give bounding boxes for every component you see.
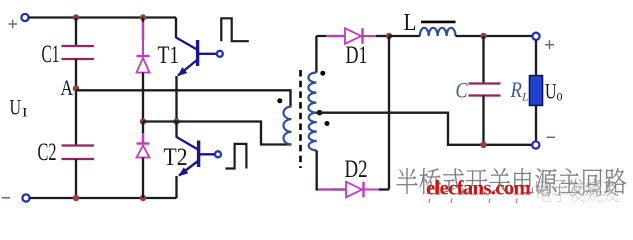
label - input bottom (2, 197, 10, 199)
node junction C bottom (480, 142, 487, 149)
capacitor C output (469, 84, 501, 96)
svg-text:L: L (404, 10, 417, 36)
diode D1 (326, 28, 378, 44)
inductor L core bar (421, 21, 456, 24)
svg-text:C: C (456, 78, 468, 103)
capacitor C2 (62, 146, 95, 160)
inductor L (420, 28, 456, 36)
wire RL top lead (535, 40, 537, 76)
node junction rectifier out (386, 33, 393, 40)
wire T2 collector lead (175, 122, 177, 138)
waveform pulse T2 (226, 144, 247, 169)
node junction top-left (73, 14, 80, 21)
svg-text:0: 0 (557, 90, 563, 104)
wire mid rail to primary bottom (143, 122, 292, 145)
wire secondary top lead (315, 36, 317, 73)
node center tap (317, 110, 323, 116)
wire diode branch lower (142, 122, 144, 144)
transformer primary winding (284, 107, 292, 145)
diode D2 (318, 182, 381, 198)
wire D2 cathode (379, 188, 389, 190)
watermark text 电子发烧友 (536, 178, 618, 195)
svg-text:I: I (22, 105, 28, 120)
wire D1 anode (316, 35, 345, 37)
terminal T1 base (217, 51, 223, 57)
label U0 (545, 79, 563, 104)
transformer secondary upper winding (308, 73, 316, 113)
wire rectifier vertical (388, 36, 390, 190)
diode DW1 freewheel (137, 22, 150, 103)
watermark text 电子发烧友 ghost (537, 186, 619, 203)
wire secondary bottom lead (317, 151, 332, 190)
node junction bottom-left (73, 195, 80, 202)
wire T1 collector lead (175, 18, 177, 39)
transistor T2 (176, 137, 214, 179)
wire center tap return (316, 113, 533, 145)
svg-text:T2: T2 (164, 144, 188, 171)
diode DW2 freewheel (137, 133, 150, 192)
svg-text:U: U (10, 95, 22, 120)
svg-text:T1: T1 (158, 42, 180, 69)
terminal - input bottom (22, 194, 29, 201)
terminal T2 base (215, 151, 221, 157)
svg-text:A: A (61, 75, 74, 100)
transformer secondary lower winding (309, 113, 317, 151)
label + input top (9, 20, 18, 29)
wire node A to primary top (76, 90, 291, 107)
node junction top-diode (140, 14, 147, 21)
svg-text:R: R (510, 77, 523, 102)
transformer core (299, 70, 302, 168)
label - output (547, 136, 556, 138)
wire C top lead (482, 36, 484, 84)
node junction mid-diode (140, 118, 147, 125)
wire rectifier to L (389, 35, 420, 37)
capacitor C1 (62, 46, 95, 59)
waveform pulse T1 (221, 18, 249, 41)
polarity dot secondary lower (325, 121, 330, 126)
wire C2 bottom lead (75, 159, 77, 198)
wire T2 emitter lead (175, 176, 177, 198)
wire D1 cathode (376, 35, 389, 37)
label UI (10, 95, 28, 120)
polarity dot primary (277, 98, 282, 103)
svg-text:D2: D2 (345, 156, 368, 183)
node junction bottom-diode (140, 195, 147, 202)
svg-text:C1: C1 (42, 41, 60, 68)
wire bottom rail (30, 197, 177, 199)
polarity dot secondary upper (320, 71, 325, 76)
svg-text:U: U (545, 79, 557, 104)
wire RL bottom lead (535, 105, 537, 141)
wire D2 anode (332, 188, 346, 190)
wire T1 emitter lead (175, 76, 177, 122)
svg-text:D1: D1 (346, 42, 368, 69)
wire diode branch mid (142, 73, 144, 122)
watermark red tick marks (429, 199, 517, 204)
resistor RL (530, 76, 543, 106)
node A (73, 85, 80, 92)
wire C1 bottom lead (75, 59, 77, 146)
svg-text:elecfans.com: elecfans.com (426, 176, 531, 200)
terminal - output (532, 141, 539, 148)
wire C1 top lead (75, 18, 77, 46)
wire diode branch upper (142, 18, 144, 41)
wire L to output (456, 35, 534, 37)
wire C bottom lead (482, 96, 484, 145)
terminal + output (532, 33, 539, 40)
label + output (545, 40, 554, 49)
caption text 半桥式开关电源主回路 (397, 168, 627, 194)
wire diode branch bottom (142, 158, 144, 199)
wire top rail (29, 16, 177, 18)
transistor T1 (175, 38, 216, 80)
svg-text:C2: C2 (38, 139, 57, 166)
node junction C top (480, 33, 487, 40)
label RL (510, 77, 529, 104)
terminal + input top (21, 14, 28, 21)
svg-text:L: L (521, 90, 529, 104)
node junction mid-transistor (173, 118, 180, 125)
